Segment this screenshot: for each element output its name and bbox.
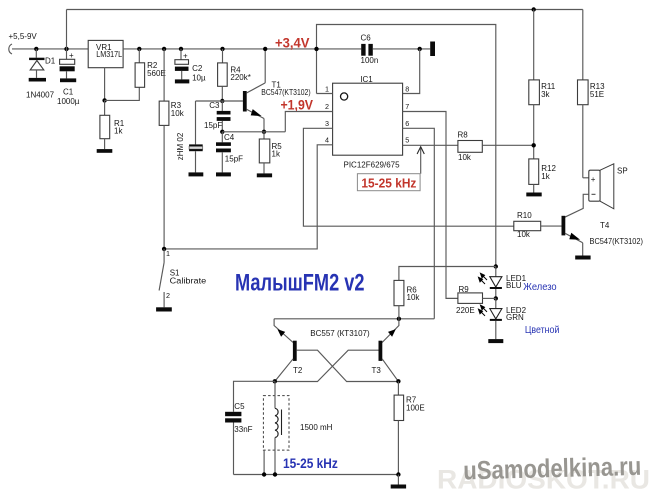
wire pin3 path xyxy=(303,128,513,226)
svg-text:10k: 10k xyxy=(517,230,531,239)
svg-text:1500 mH: 1500 mH xyxy=(300,423,333,432)
svg-text:GRN: GRN xyxy=(506,313,524,322)
svg-text:+: + xyxy=(69,51,74,60)
node base node T1 xyxy=(220,99,224,103)
inductor L1 coil xyxy=(274,381,276,408)
wire input to VR1 xyxy=(12,48,88,50)
svg-text:1k: 1k xyxy=(272,150,281,159)
node R6 T3 emitter junction xyxy=(397,317,401,321)
svg-text:BC547(KT3102): BC547(KT3102) xyxy=(590,237,644,246)
svg-text:51E: 51E xyxy=(590,90,604,99)
wire pin5 to R8 xyxy=(403,144,458,146)
switch S1 Calibrate xyxy=(163,249,165,263)
svg-text:8: 8 xyxy=(405,85,409,94)
svg-text:BLU: BLU xyxy=(506,281,522,290)
svg-text:uSamodelkina.ru: uSamodelkina.ru xyxy=(463,451,642,486)
svg-text:7: 7 xyxy=(405,102,409,111)
node T2 collector junction xyxy=(273,379,277,383)
resistor R3 10k xyxy=(162,47,166,51)
svg-text:100n: 100n xyxy=(361,56,379,65)
resistor R8 10k xyxy=(458,141,482,153)
ground S1 xyxy=(156,307,172,311)
label box 15-25 kHz red xyxy=(357,174,420,191)
resistor R5 1k xyxy=(263,132,265,139)
svg-text:10k: 10k xyxy=(458,153,472,162)
transistor T3 BC557 xyxy=(382,319,399,343)
transistor T1 BC547 xyxy=(243,91,247,112)
resistor R4 220k xyxy=(220,47,224,51)
svg-text:15-25 kHz: 15-25 kHz xyxy=(283,456,338,471)
capacitor C4 15pF xyxy=(221,132,223,143)
transistor T4 BC547 xyxy=(562,216,566,236)
resistor R1 1k xyxy=(104,100,106,115)
resistor R10 10k xyxy=(514,221,541,230)
svg-text:10k: 10k xyxy=(407,293,421,302)
wire pin6 path to multivibrator rail xyxy=(403,128,435,318)
transistor T2 BC557 xyxy=(274,319,293,343)
svg-text:3k: 3k xyxy=(541,90,550,99)
resistor R2 560E xyxy=(137,47,141,51)
svg-text:R10: R10 xyxy=(517,211,532,220)
resistor R11 3k xyxy=(533,10,535,80)
svg-text:15pF: 15pF xyxy=(204,121,222,130)
crystal X1 20MHz xyxy=(195,101,197,144)
inductor L1 dashed shield box xyxy=(263,396,289,451)
wire pin7 path to R9 xyxy=(403,112,458,299)
svg-text:C5: C5 xyxy=(234,402,245,411)
OSC-SECTION xyxy=(176,34,314,177)
svg-text:1k: 1k xyxy=(541,172,550,181)
svg-text:6: 6 xyxy=(405,119,409,128)
LED LED1 BLU xyxy=(495,267,497,277)
LED1 arrows xyxy=(479,273,488,284)
svg-text:SP: SP xyxy=(617,166,628,175)
node top rail R11 junction xyxy=(532,7,536,11)
svg-text:4: 4 xyxy=(325,136,329,145)
ground C4 xyxy=(216,172,231,176)
svg-text:1: 1 xyxy=(166,249,170,258)
svg-text:1000µ: 1000µ xyxy=(57,97,80,106)
svg-text:C3: C3 xyxy=(209,101,220,110)
wire emitter row xyxy=(222,131,285,133)
svg-text:100E: 100E xyxy=(406,404,425,413)
wire VR1 output rail +3.4V xyxy=(123,48,361,50)
POWER-SECTION xyxy=(9,10,583,249)
svg-text:R9: R9 xyxy=(459,285,470,294)
wire pin8 riser xyxy=(403,49,420,94)
resistor R6 10k xyxy=(394,280,404,305)
connector J1 input plug xyxy=(9,44,12,54)
svg-text:IC1: IC1 xyxy=(360,75,373,84)
arrow frequency pointer at pin5 xyxy=(420,148,422,174)
node C6 junction xyxy=(418,47,422,51)
svg-text:R8: R8 xyxy=(458,131,469,140)
wire R6 top link xyxy=(399,267,496,281)
LED2 arrows xyxy=(479,305,488,316)
BOTTOM-SECTION xyxy=(156,247,434,489)
ground C2 xyxy=(175,79,189,83)
svg-text:5: 5 xyxy=(405,136,409,145)
RIGHT-SECTION xyxy=(399,7,643,343)
svg-text:+: + xyxy=(591,175,596,184)
resistor R12 1k xyxy=(529,159,539,185)
wire adj to R2 bottom xyxy=(105,87,140,100)
wire bottom rail xyxy=(234,474,399,476)
IC-SECTION xyxy=(164,25,514,319)
svg-text:Calibrate: Calibrate xyxy=(170,276,207,285)
wire D1 stub xyxy=(35,49,37,58)
wire multivibrator emitter rail xyxy=(274,318,434,320)
ground R1 xyxy=(97,149,113,153)
svg-text:BC557 (КТ3107): BC557 (КТ3107) xyxy=(310,329,370,338)
svg-text:D1: D1 xyxy=(45,57,56,66)
svg-text:T2: T2 xyxy=(293,366,303,375)
node pin1 rail junction xyxy=(314,47,318,51)
capacitor C6 100n xyxy=(361,44,365,56)
ground T4 xyxy=(575,256,590,260)
node coil bottom junction xyxy=(273,472,277,476)
ground D1 xyxy=(29,78,46,82)
wire VR1 adj pin xyxy=(104,68,106,101)
wire cross couple T2 base to T3 collector xyxy=(297,350,399,381)
node T3 collector junction xyxy=(396,379,400,383)
svg-text:zHM 02: zHM 02 xyxy=(176,132,185,160)
node R7 bottom junction xyxy=(396,472,400,476)
svg-text:1k: 1k xyxy=(114,127,123,136)
resistor R7 100E xyxy=(397,381,399,395)
resistor R9 220E xyxy=(446,297,458,299)
svg-text:220E: 220E xyxy=(456,306,475,315)
LED LED2 GRN xyxy=(495,298,497,308)
ground crystal xyxy=(189,172,204,176)
wire pin2 path to emitter node xyxy=(285,112,332,132)
wire pin1 stub xyxy=(317,93,333,95)
node R8 R11 R12 junction xyxy=(532,143,536,147)
capacitor C5 33nF xyxy=(225,412,241,416)
svg-text:T4: T4 xyxy=(600,221,610,230)
node shield bottom junction xyxy=(262,472,266,476)
node adj junction xyxy=(102,98,106,102)
svg-text:Железо: Железо xyxy=(523,281,556,293)
wire speaker to T4 collector xyxy=(565,194,589,217)
svg-text:1N4007: 1N4007 xyxy=(26,91,55,100)
svg-text:220k*: 220k* xyxy=(230,73,250,82)
node C4 node xyxy=(220,130,224,134)
svg-text:+3,4V: +3,4V xyxy=(275,34,310,50)
IC IC1 PIC12F629/675 xyxy=(333,83,403,155)
wire top rail riser xyxy=(66,10,68,49)
svg-text:33nF: 33nF xyxy=(234,425,252,434)
wire tank top link xyxy=(234,381,275,412)
svg-text:+1,9V: +1,9V xyxy=(281,96,314,112)
regulator VR1 LM317L xyxy=(88,40,123,67)
svg-text:Цветной: Цветной xyxy=(525,324,560,336)
svg-text:10k: 10k xyxy=(171,109,185,118)
node S1 junction xyxy=(162,247,166,251)
ground C6 bar xyxy=(430,42,435,57)
diode D1 xyxy=(29,58,44,60)
svg-text:+5,5-9V: +5,5-9V xyxy=(9,32,38,41)
svg-text:PIC12F629/675: PIC12F629/675 xyxy=(344,160,401,169)
svg-text:T3: T3 xyxy=(372,366,382,375)
ground LED2 xyxy=(488,339,503,343)
svg-text:LM317L: LM317L xyxy=(96,50,122,59)
wire pin4 path to S1 xyxy=(164,145,333,249)
svg-text:1: 1 xyxy=(325,85,329,94)
capacitor C3 15pF xyxy=(221,101,223,111)
svg-text:3: 3 xyxy=(325,119,329,128)
node LED1 LED2 junction xyxy=(494,296,498,300)
ground bottom rail xyxy=(397,475,399,485)
ground C1 xyxy=(60,78,76,82)
node T1 emitter node xyxy=(262,130,266,134)
svg-text:C4: C4 xyxy=(224,133,235,142)
wire C1 stub xyxy=(66,49,68,59)
svg-text:560E: 560E xyxy=(147,69,166,78)
svg-text:15pF: 15pF xyxy=(225,155,243,164)
wire pin1 riser and LED feed rail xyxy=(317,25,496,267)
wire shield tap xyxy=(263,450,265,474)
node C1 junction xyxy=(64,47,68,51)
svg-text:МалышFM2 v2: МалышFM2 v2 xyxy=(235,269,365,296)
wire top rail xyxy=(67,9,583,11)
svg-text:C1: C1 xyxy=(63,88,74,97)
node input junction D1 xyxy=(34,47,38,51)
wire cross couple T3 base to T2 collector xyxy=(275,350,379,381)
node LED1 top junction xyxy=(494,264,498,268)
resistor R13 51E xyxy=(582,10,584,80)
svg-text:2: 2 xyxy=(166,291,170,300)
ground R12 xyxy=(526,193,541,197)
svg-text:C2: C2 xyxy=(192,64,203,73)
svg-text:2: 2 xyxy=(325,102,329,111)
speaker SP xyxy=(583,177,589,179)
svg-text:15-25 kHz: 15-25 kHz xyxy=(361,176,416,191)
svg-text:C6: C6 xyxy=(361,34,372,43)
capacitor C2 10u xyxy=(179,47,183,51)
svg-text:10µ: 10µ xyxy=(192,74,206,83)
ground R5 xyxy=(257,173,272,177)
wire base node xyxy=(196,100,243,102)
